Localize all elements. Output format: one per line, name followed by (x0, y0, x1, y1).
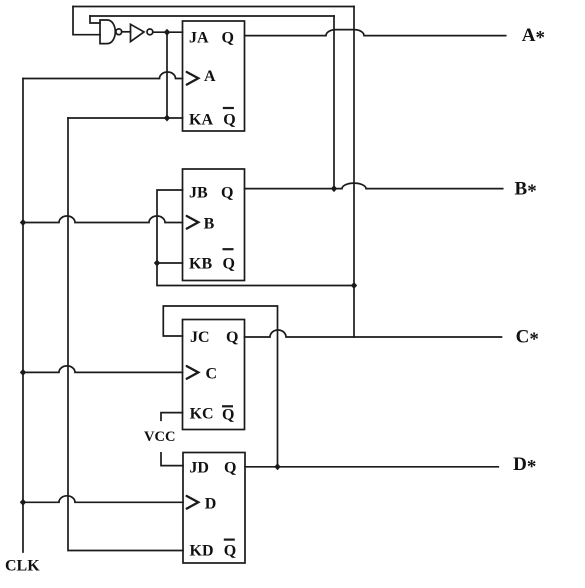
svg-text:D*: D* (513, 454, 536, 478)
svg-text:B: B (204, 216, 215, 233)
svg-text:C: C (206, 365, 218, 382)
svg-text:A*: A* (522, 25, 545, 49)
svg-text:KC: KC (190, 406, 214, 423)
svg-text:Q: Q (226, 329, 238, 346)
svg-text:KA: KA (189, 112, 213, 129)
svg-text:Q: Q (223, 112, 235, 129)
svg-text:D: D (205, 495, 217, 512)
svg-text:Q: Q (222, 29, 234, 46)
svg-text:KD: KD (190, 543, 214, 560)
svg-text:Q: Q (224, 543, 236, 560)
svg-text:CLK: CLK (5, 558, 40, 575)
svg-text:JD: JD (189, 460, 209, 477)
svg-text:VCC: VCC (144, 429, 175, 445)
svg-text:JA: JA (189, 29, 209, 46)
svg-text:B*: B* (515, 178, 537, 202)
svg-text:Q: Q (224, 460, 236, 477)
svg-text:Q: Q (222, 407, 234, 424)
svg-text:Q: Q (223, 256, 235, 273)
svg-text:A: A (204, 68, 216, 85)
svg-text:KB: KB (189, 256, 212, 273)
svg-text:JC: JC (190, 329, 210, 346)
svg-text:Q: Q (221, 185, 233, 202)
svg-text:C*: C* (516, 327, 539, 351)
svg-text:JB: JB (189, 185, 208, 202)
